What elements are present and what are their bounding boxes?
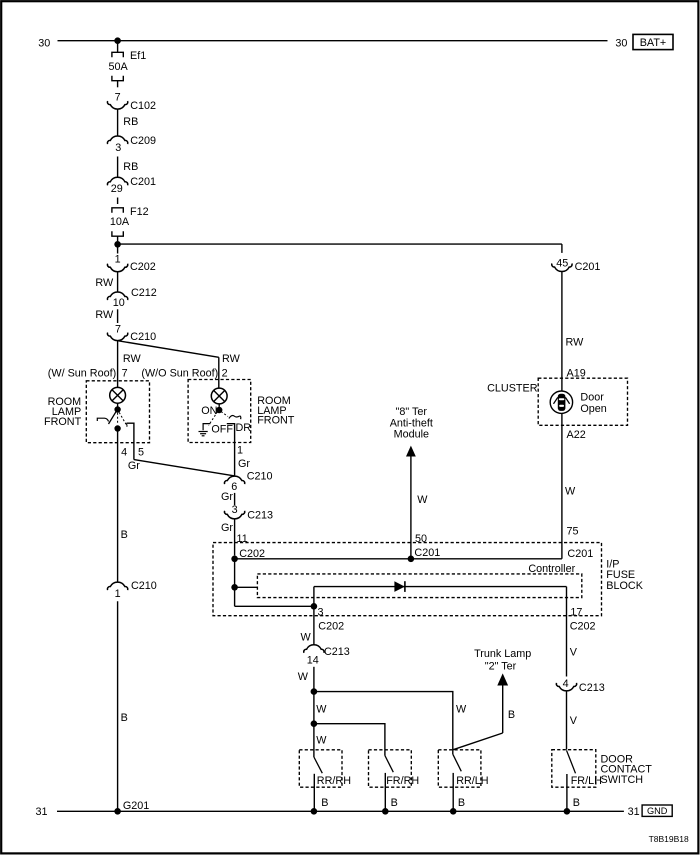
svg-text:RB: RB — [123, 161, 138, 173]
svg-text:7: 7 — [115, 324, 121, 336]
svg-text:10A: 10A — [110, 216, 130, 228]
svg-text:W: W — [298, 671, 309, 683]
svg-text:W: W — [456, 703, 467, 715]
svg-text:Trunk Lamp: Trunk Lamp — [474, 648, 531, 660]
svg-text:B: B — [391, 797, 398, 809]
svg-text:3: 3 — [232, 504, 238, 516]
svg-text:W: W — [417, 494, 428, 506]
svg-text:C202: C202 — [570, 620, 596, 632]
svg-text:17: 17 — [570, 606, 582, 618]
svg-text:RW: RW — [95, 309, 114, 321]
svg-text:B: B — [508, 709, 515, 721]
svg-text:Gr: Gr — [128, 460, 140, 472]
svg-text:1: 1 — [115, 254, 121, 266]
svg-text:"8" Ter: "8" Ter — [396, 406, 428, 418]
svg-text:B: B — [121, 529, 128, 541]
svg-text:C210: C210 — [131, 580, 157, 592]
svg-text:Module: Module — [394, 428, 429, 440]
svg-text:C213: C213 — [324, 646, 350, 658]
svg-text:Gr: Gr — [221, 522, 233, 534]
svg-text:C212: C212 — [131, 287, 157, 299]
svg-text:Controller: Controller — [528, 563, 575, 575]
svg-text:3: 3 — [115, 142, 121, 154]
svg-text:G201: G201 — [123, 800, 149, 812]
svg-text:5: 5 — [138, 446, 144, 458]
svg-text:Ef1: Ef1 — [130, 50, 146, 62]
svg-text:DR: DR — [236, 422, 252, 434]
svg-text:Open: Open — [580, 403, 606, 415]
svg-text:W: W — [316, 734, 327, 746]
svg-text:FRONT: FRONT — [257, 415, 295, 427]
svg-text:C210: C210 — [130, 331, 156, 343]
svg-text:Gr: Gr — [221, 491, 233, 503]
svg-text:C210: C210 — [247, 471, 273, 483]
svg-text:C201: C201 — [414, 547, 440, 559]
svg-text:C209: C209 — [130, 135, 156, 147]
svg-text:RW: RW — [222, 353, 241, 365]
svg-text:C213: C213 — [247, 509, 273, 521]
svg-text:C202: C202 — [130, 261, 156, 273]
svg-text:C201: C201 — [130, 176, 156, 188]
svg-text:75: 75 — [567, 526, 579, 538]
svg-text:W: W — [316, 703, 327, 715]
svg-text:BAT+: BAT+ — [640, 37, 667, 49]
svg-text:1: 1 — [115, 588, 121, 600]
svg-text:RR/RH: RR/RH — [317, 775, 351, 787]
svg-text:RR/LH: RR/LH — [456, 775, 488, 787]
svg-text:RW: RW — [566, 337, 585, 349]
svg-text:B: B — [121, 712, 128, 724]
svg-text:GND: GND — [647, 806, 668, 816]
svg-text:14: 14 — [307, 655, 319, 667]
svg-text:3: 3 — [318, 606, 324, 618]
svg-text:RW: RW — [95, 277, 114, 289]
svg-text:2: 2 — [222, 367, 228, 379]
svg-text:OFF: OFF — [211, 423, 233, 435]
svg-text:Gr: Gr — [238, 458, 250, 470]
svg-text:31: 31 — [36, 806, 48, 818]
svg-text:A22: A22 — [567, 429, 586, 441]
svg-text:10: 10 — [113, 297, 125, 309]
svg-text:4: 4 — [563, 678, 569, 690]
svg-text:45: 45 — [556, 257, 568, 269]
svg-text:"2" Ter: "2" Ter — [485, 660, 517, 672]
svg-text:RW: RW — [123, 353, 142, 365]
svg-text:BLOCK: BLOCK — [606, 580, 643, 592]
svg-text:(W/ Sun Roof): (W/ Sun Roof) — [48, 367, 116, 379]
svg-text:30: 30 — [38, 38, 50, 50]
svg-text:C202: C202 — [318, 620, 344, 632]
svg-text:FR/LH: FR/LH — [571, 775, 602, 787]
svg-text:T8B19B18: T8B19B18 — [649, 834, 689, 844]
svg-text:RB: RB — [123, 116, 138, 128]
svg-text:B: B — [573, 797, 580, 809]
svg-text:C102: C102 — [130, 100, 156, 112]
svg-text:V: V — [570, 646, 578, 658]
svg-text:B: B — [321, 797, 328, 809]
svg-text:SWITCH: SWITCH — [601, 774, 644, 786]
svg-text:W: W — [565, 486, 576, 498]
svg-text:7: 7 — [115, 92, 121, 104]
svg-text:Door: Door — [580, 391, 604, 403]
svg-text:50A: 50A — [109, 61, 129, 73]
svg-text:A19: A19 — [567, 367, 586, 379]
svg-text:31: 31 — [628, 806, 640, 818]
svg-text:CLUSTER: CLUSTER — [487, 382, 538, 394]
svg-text:FRONT: FRONT — [44, 416, 82, 428]
svg-text:4: 4 — [121, 446, 127, 458]
svg-text:FR/RH: FR/RH — [386, 775, 419, 787]
svg-text:29: 29 — [111, 183, 123, 195]
svg-text:7: 7 — [122, 367, 128, 379]
svg-text:(W/O Sun Roof): (W/O Sun Roof) — [141, 367, 218, 379]
svg-text:1: 1 — [237, 445, 243, 457]
svg-text:V: V — [570, 715, 578, 727]
svg-text:F12: F12 — [130, 206, 149, 218]
svg-text:W: W — [301, 632, 312, 644]
svg-text:B: B — [458, 797, 465, 809]
svg-text:30: 30 — [615, 38, 627, 50]
svg-text:C201: C201 — [567, 548, 593, 560]
svg-text:50: 50 — [415, 533, 427, 545]
svg-text:C213: C213 — [579, 682, 605, 694]
svg-text:C201: C201 — [575, 261, 601, 273]
